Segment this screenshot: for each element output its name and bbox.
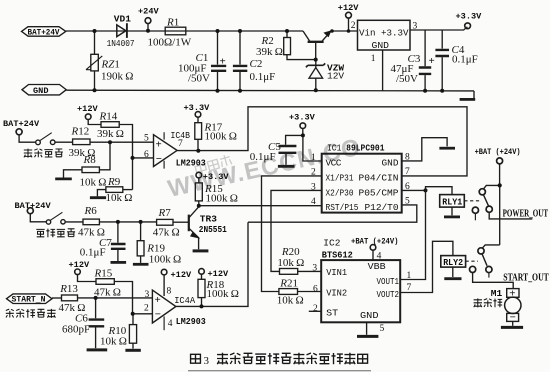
resistor R7: [157, 219, 173, 225]
svg-text:+BAT (+24V): +BAT (+24V): [475, 147, 521, 157]
svg-text:R21: R21: [279, 278, 298, 290]
flag START_N: [7, 294, 53, 304]
wire gnd rail: [66, 89, 474, 92]
svg-text:+12V: +12V: [208, 269, 229, 279]
svg-text:+BAT (+24V): +BAT (+24V): [351, 237, 399, 247]
svg-text:2: 2: [313, 304, 318, 314]
svg-text:3: 3: [312, 263, 317, 273]
svg-text:RZ1: RZ1: [101, 59, 120, 71]
capacitor C6: [95, 298, 97, 318]
node emitter: [330, 29, 334, 33]
node +BAT/RLY1: [498, 183, 502, 187]
svg-text:+: +: [220, 56, 226, 68]
svg-text:47k Ω: 47k Ω: [94, 286, 121, 298]
svg-text:0.1μF: 0.1μF: [250, 71, 276, 83]
svg-text:4: 4: [168, 319, 173, 329]
zener VZW: [315, 60, 317, 68]
svg-text:R20: R20: [281, 246, 300, 258]
svg-text:10k Ω: 10k Ω: [106, 192, 133, 204]
terminal +12V R15b: [75, 269, 81, 275]
transistor TR3: [188, 215, 190, 232]
resistor R14: [101, 122, 119, 128]
svg-text:+3.3V: +3.3V: [203, 172, 230, 182]
capacitor C7: [117, 222, 119, 243]
text qidong-kaiguan: [24, 149, 63, 158]
resistor R19: [140, 222, 142, 241]
svg-text:7: 7: [407, 283, 412, 293]
wire pin1 GND stem: [382, 50, 384, 91]
node C6: [94, 296, 98, 300]
node R15/TR3: [197, 204, 201, 208]
svg-text:RLY2: RLY2: [443, 257, 463, 268]
svg-text:0.1μF: 0.1μF: [452, 54, 478, 66]
svg-text:RLY1: RLY1: [442, 197, 462, 208]
svg-text:VIN2: VIN2: [326, 288, 347, 299]
svg-text:GND: GND: [372, 40, 390, 51]
svg-text:39k Ω: 39k Ω: [256, 46, 283, 58]
svg-text:LM2903: LM2903: [176, 157, 206, 168]
svg-text:0.1μF: 0.1μF: [250, 151, 276, 163]
switch neutral: [46, 220, 50, 224]
ground top-right: [473, 91, 475, 98]
resistor R6: [83, 219, 99, 225]
svg-text:3: 3: [311, 182, 316, 192]
node zener top: [314, 58, 318, 62]
capacitor C2: [239, 31, 241, 65]
svg-text:R14: R14: [99, 111, 118, 123]
capacitor C4: [441, 30, 443, 49]
text fadongji-zhuansu: [6, 309, 56, 318]
svg-text:680pF: 680pF: [62, 324, 90, 336]
transistor pass: [308, 41, 324, 43]
svg-text:+: +: [156, 138, 162, 150]
resistor R1: [165, 27, 186, 35]
varistor RZ1: [94, 31, 96, 54]
node R17 out: [196, 149, 200, 153]
node R18 out: [200, 304, 204, 308]
svg-text:10k Ω: 10k Ω: [277, 294, 304, 306]
svg-text:X1/P31: X1/P31: [326, 173, 354, 184]
watermark 中电网: [194, 154, 232, 175]
node zener gnd: [314, 88, 318, 92]
resistor R10: [132, 314, 134, 325]
svg-text:190k Ω: 190k Ω: [101, 71, 133, 83]
node C1 gnd: [216, 89, 220, 93]
svg-text:+: +: [429, 55, 435, 67]
terminal +3.3V top-right: [465, 23, 471, 29]
svg-text:1: 1: [407, 271, 412, 281]
terminal +3.3V R15: [196, 172, 202, 178]
svg-text:6: 6: [144, 150, 149, 160]
svg-text:R15: R15: [94, 267, 113, 279]
wire VOUT2: [400, 241, 453, 292]
svg-text:12V: 12V: [327, 71, 344, 82]
wire flag to R13: [52, 297, 62, 299]
wire route to P12/T0: [248, 205, 417, 222]
svg-text:BAT+24V: BAT+24V: [3, 119, 40, 129]
svg-text:M1: M1: [491, 288, 503, 299]
svg-text:−: −: [155, 309, 161, 321]
motor M1: [507, 289, 519, 298]
svg-text:+12V: +12V: [338, 3, 359, 13]
svg-text:+: +: [155, 294, 161, 306]
wire GND pin8: [402, 138, 447, 161]
svg-text:100k Ω: 100k Ω: [207, 288, 239, 300]
resistor R15 47k: [96, 279, 114, 285]
resistor R21: [279, 289, 298, 295]
wire collector to RST/P15: [199, 205, 322, 207]
svg-text:C2: C2: [250, 58, 263, 70]
switch RLY2: [483, 245, 500, 248]
relay RLY1 coil: [440, 195, 465, 208]
node +3.3V VCC: [301, 133, 305, 137]
svg-text:39k Ω: 39k Ω: [97, 128, 124, 140]
svg-text:10k Ω: 10k Ω: [80, 177, 107, 189]
svg-text:2: 2: [351, 21, 356, 31]
svg-text:GND: GND: [360, 310, 379, 321]
node RZ1/rail: [93, 29, 97, 33]
svg-text:Vin +3.3V: Vin +3.3V: [359, 27, 409, 38]
svg-text:VOUT2: VOUT2: [377, 289, 400, 300]
terminal +12V top: [346, 12, 352, 18]
node P05 tap: [424, 188, 428, 192]
svg-text:BAT+24V: BAT+24V: [15, 201, 52, 211]
svg-text:TR3: TR3: [200, 213, 217, 224]
resistor R20: [280, 269, 298, 275]
junction dots top: [93, 29, 445, 93]
svg-text:+3.3V: +3.3V: [289, 113, 316, 123]
capacitor C5: [286, 135, 303, 144]
caption tu3 qidong baohu kongzhiqi dianlu yuanlitu: [191, 353, 368, 367]
svg-text:VD1: VD1: [114, 14, 131, 25]
node +24V term: [146, 29, 150, 33]
svg-text:1: 1: [371, 54, 376, 64]
resistor R13: [62, 295, 78, 301]
watermark www.ECCN: [165, 133, 363, 202]
svg-text:/50V: /50V: [188, 73, 210, 85]
resistor R9: [106, 187, 123, 193]
node +12V drop: [347, 29, 351, 33]
node R10/pin2: [131, 312, 135, 316]
ground R8: [64, 170, 83, 178]
svg-text:1N4007: 1N4007: [107, 38, 135, 49]
svg-text:R9: R9: [107, 176, 121, 188]
wire R13 to pin3: [78, 297, 153, 299]
svg-text:IC4A: IC4A: [174, 295, 195, 306]
svg-text:10k Ω: 10k Ω: [100, 336, 127, 348]
svg-text:START_OUT: START_OUT: [503, 273, 549, 284]
svg-text:+3.3V: +3.3V: [184, 103, 211, 113]
svg-text:−: −: [510, 312, 516, 324]
svg-text:POWER_OUT: POWER_OUT: [503, 208, 548, 219]
svg-text:VIN1: VIN1: [326, 267, 347, 278]
node R6/C7: [116, 220, 120, 224]
svg-text:R13: R13: [59, 283, 78, 295]
svg-text:3: 3: [413, 22, 418, 32]
terminal BAT+24V mid: [16, 129, 22, 135]
wire P05/CMP pin6: [402, 189, 426, 191]
svg-text:5: 5: [380, 324, 385, 334]
terminal +BAT right: [497, 158, 503, 164]
node R19: [139, 220, 143, 224]
flag GND: [22, 85, 66, 95]
svg-text:−: −: [156, 153, 162, 165]
ground pin5: [366, 322, 368, 335]
svg-text:R6: R6: [84, 205, 98, 217]
resistor R17: [195, 112, 201, 118]
svg-text:6: 6: [405, 182, 410, 192]
ground TR3: [193, 249, 209, 252]
capacitor C1: [217, 31, 219, 65]
resistor R15 100k: [195, 183, 202, 201]
svg-text:10k Ω: 10k Ω: [277, 257, 304, 269]
wire R8 branch: [99, 142, 110, 170]
flag BAT+24V top-left: [22, 27, 66, 37]
scan artifact bottom edge: [188, 370, 371, 372]
op-amp IC4A: [152, 290, 176, 323]
svg-text:IC1 89LPC901: IC1 89LPC901: [327, 143, 385, 154]
svg-text:START_N: START_N: [12, 295, 46, 305]
wire VOUT1: [400, 187, 452, 280]
capacitor C3: [424, 30, 426, 66]
wire pin6: [133, 157, 154, 159]
svg-text:R1: R1: [166, 17, 179, 29]
resistor R2: [286, 31, 288, 38]
resistor R18: [199, 269, 205, 275]
svg-text:LM2903: LM2903: [176, 316, 206, 327]
svg-text:1: 1: [311, 153, 316, 163]
svg-text:P12/T0: P12/T0: [365, 202, 399, 213]
svg-text:100k Ω: 100k Ω: [205, 131, 237, 143]
node C1 top: [216, 29, 220, 33]
svg-text:3: 3: [204, 355, 210, 367]
wire pin2: [133, 313, 153, 315]
wire VCC: [303, 135, 322, 161]
svg-text:ST: ST: [326, 307, 338, 318]
svg-text:8: 8: [405, 153, 410, 163]
power pin8 IC4A: [161, 269, 167, 275]
svg-text:X2/P30: X2/P30: [326, 187, 354, 198]
node R12/R8: [108, 140, 112, 144]
svg-text:47k Ω: 47k Ω: [153, 227, 180, 239]
text qidongji (starter): [474, 298, 503, 307]
relay RLY2 coil: [441, 256, 466, 268]
node C2 top: [238, 29, 242, 33]
terminal +24V: [145, 18, 151, 24]
svg-text:7: 7: [178, 139, 183, 149]
svg-text:VBB: VBB: [368, 261, 386, 272]
wire pin3: [410, 27, 467, 30]
svg-text:+12V: +12V: [69, 260, 90, 270]
svg-text:BAT+24V: BAT+24V: [28, 27, 61, 37]
wire R9 right: [123, 189, 133, 191]
svg-text:7: 7: [405, 167, 410, 177]
svg-text:6: 6: [313, 284, 318, 294]
svg-text:R12: R12: [71, 126, 90, 138]
svg-text:VCC: VCC: [326, 158, 342, 169]
text konggeng-kaiguan: [36, 229, 75, 238]
wire R15b to pin2 node: [114, 282, 132, 314]
svg-text:5: 5: [144, 134, 149, 144]
svg-text:R8: R8: [83, 154, 97, 166]
svg-text:GND: GND: [33, 86, 48, 96]
resistor R12: [73, 139, 90, 145]
wire +BAT down: [499, 185, 501, 245]
node C2 gnd: [238, 89, 242, 93]
IC1 box: [322, 154, 402, 213]
svg-text:100k Ω: 100k Ω: [206, 193, 238, 205]
svg-text:+: +: [509, 287, 515, 299]
svg-text:100k Ω: 100k Ω: [149, 254, 181, 266]
ground R9: [97, 190, 106, 197]
resistor R8: [82, 167, 99, 173]
switch start (qidong): [36, 140, 41, 145]
op-amp IC4B: [154, 135, 178, 167]
node R2 top: [285, 29, 289, 33]
svg-text:VOUT1: VOUT1: [377, 276, 400, 287]
svg-text:GND: GND: [382, 158, 399, 169]
terminal BAT+24V low: [27, 208, 33, 214]
svg-text:+24V: +24V: [138, 7, 159, 17]
wire IC4A output: [176, 222, 248, 306]
svg-text:2: 2: [144, 304, 149, 314]
svg-text:5: 5: [405, 197, 410, 207]
diode VD1: [117, 25, 126, 37]
terminal +BAT VBB: [370, 245, 376, 251]
wire emitter to Vin: [331, 30, 358, 32]
svg-text:RST/P15: RST/P15: [326, 202, 359, 213]
svg-text:BTS612: BTS612: [322, 249, 353, 260]
terminal +12V R14: [85, 114, 91, 120]
svg-text:IC2: IC2: [323, 238, 340, 249]
svg-text:100Ω/1W: 100Ω/1W: [148, 37, 192, 49]
IC2 box: [321, 260, 400, 322]
node R14/R9: [131, 156, 135, 160]
node C4 gnd: [440, 89, 444, 93]
wire TR3 base: [173, 221, 189, 223]
svg-text:2N5551: 2N5551: [199, 224, 227, 235]
wire X2/P30 to R20: [271, 190, 322, 271]
svg-text:P05/CMP: P05/CMP: [359, 187, 399, 198]
node C3 gnd: [423, 89, 427, 93]
wire node row: [99, 221, 156, 223]
ST stub: [309, 310, 321, 312]
regulator U3 Vin box: [358, 20, 411, 50]
svg-text:+12V: +12V: [171, 270, 192, 280]
svg-text:R7: R7: [158, 207, 172, 219]
wire R12 to pin5: [90, 141, 153, 143]
svg-text:8: 8: [167, 287, 172, 297]
wire IC4B output route to P04/CIN: [177, 107, 467, 176]
svg-text:+3.3V: +3.3V: [456, 12, 483, 22]
wire X1/P31 to R21: [262, 176, 322, 292]
power pin4 IC4A: [163, 316, 165, 330]
svg-text:+12V: +12V: [77, 104, 98, 114]
svg-text:2: 2: [311, 168, 316, 178]
switch RLY1: [484, 185, 500, 188]
svg-text:4: 4: [311, 197, 316, 207]
wire +24V rail: [66, 30, 303, 32]
terminal +3.3V VCC: [300, 123, 306, 129]
svg-text:0.1μF: 0.1μF: [80, 247, 106, 259]
node RZ1 gnd: [93, 88, 97, 92]
svg-text:/50V: /50V: [396, 73, 418, 85]
wire R14 to divider: [119, 125, 132, 190]
svg-text:P04/CIN: P04/CIN: [359, 173, 399, 184]
svg-text:3: 3: [145, 290, 150, 300]
